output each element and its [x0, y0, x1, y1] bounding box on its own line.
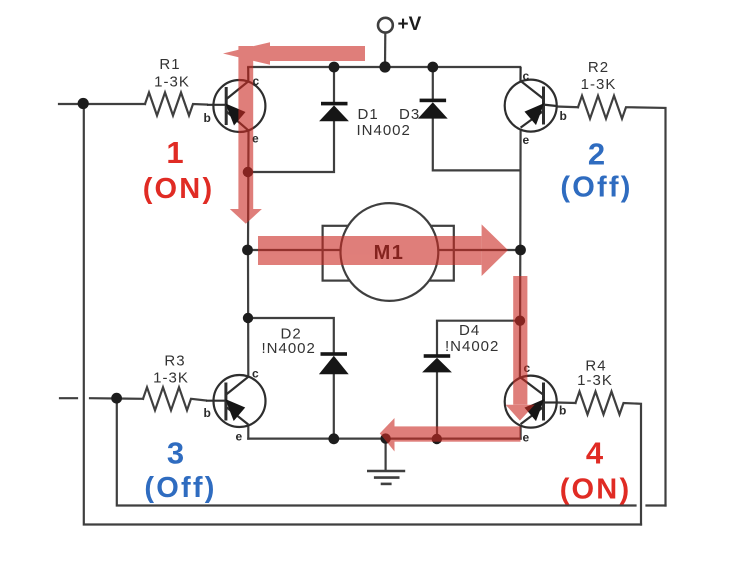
svg-text:1-3K: 1-3K [581, 76, 617, 93]
svg-text:b: b [559, 404, 566, 418]
svg-text:(Off): (Off) [560, 172, 632, 204]
svg-text:+V: +V [398, 14, 422, 35]
svg-text:1-3K: 1-3K [153, 370, 189, 387]
svg-text:1-3K: 1-3K [154, 74, 190, 91]
svg-text:1-3K: 1-3K [577, 372, 613, 389]
svg-text:D3: D3 [399, 106, 420, 123]
svg-text:R2: R2 [588, 59, 609, 76]
svg-text:4: 4 [586, 436, 604, 471]
svg-text:e: e [523, 431, 530, 445]
svg-text:3: 3 [167, 436, 184, 471]
svg-text:!N4002: !N4002 [445, 338, 499, 355]
svg-text:2: 2 [588, 137, 605, 172]
svg-text:(ON): (ON) [143, 173, 215, 205]
svg-text:b: b [204, 406, 211, 420]
svg-text:R1: R1 [159, 56, 180, 73]
svg-text:D1: D1 [358, 106, 379, 123]
svg-text:R3: R3 [164, 353, 185, 370]
svg-text:c: c [252, 367, 259, 381]
svg-text:b: b [204, 111, 211, 125]
svg-text:IN4002: IN4002 [357, 122, 411, 139]
svg-text:!N4002: !N4002 [262, 340, 316, 357]
svg-text:e: e [236, 430, 243, 444]
svg-text:(Off): (Off) [144, 472, 216, 504]
svg-text:c: c [523, 69, 530, 83]
svg-text:e: e [523, 133, 530, 147]
svg-text:c: c [253, 74, 260, 88]
svg-text:(ON): (ON) [560, 474, 632, 506]
svg-text:1: 1 [166, 135, 183, 170]
svg-text:D4: D4 [459, 322, 480, 339]
svg-text:b: b [560, 109, 567, 123]
